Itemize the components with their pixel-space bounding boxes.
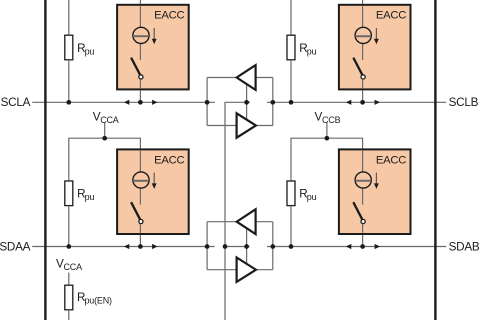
junction SCLA/EACC U1 [138,100,143,105]
node SCLB [449,96,479,109]
wire VCCB stub [326,123,328,139]
svg-text:SDAA: SDAA [0,240,31,253]
node VCCA (SCL side supply) [93,111,119,126]
wire EACC U4 output to SDAB [362,235,364,247]
wire Rpu to SCLB [290,60,292,103]
junction SDAA/buffer input [205,244,210,249]
label Rpu (SDAB) [299,188,316,203]
EACC block U1 (SCL A-side accelerator) [117,5,189,90]
wire Rpu top-right supply stub [290,0,292,35]
wire package boundary B-side [434,0,436,320]
wire enable net (to EN circuit) [225,102,250,320]
wire EACC U2 output to SCLB [362,90,364,102]
junction VCCA rail [102,136,107,141]
junction SCLA/Rpu [66,100,71,105]
svg-text:EACC: EACC [376,154,406,166]
wire EACC U1 output to SCLA [139,90,141,102]
op-amp buffer U7 (points left) [237,209,256,234]
wire Rpu top-left supply stub [68,0,70,35]
node VCCB (SDA side supply) [315,111,341,126]
svg-text:EACC: EACC [154,154,184,166]
wire SCLB rail [267,101,446,103]
junction SCLB/Rpu [289,100,294,105]
resistor Rpu (SDAA pull-up) [65,181,73,206]
op-amp buffer U5 (points left) [237,65,256,90]
arrow pair SDAB (EACC current) [346,244,380,249]
wire enable tap (U7/U8) [246,228,248,264]
junction SCLB/buffer output [270,100,275,105]
junction SDA enable net [223,244,228,249]
wire Rpu to SCLA [68,60,70,103]
wire Rpu(EN) tail [68,310,70,320]
op-amp buffer U6 (points right) [237,113,256,137]
wire SDAB rail [267,246,446,248]
op-amp buffer U8 (points right) [237,258,256,282]
node VCCA (enable pull-up supply) [56,258,82,273]
EACC block U2 (SCL B-side accelerator) [339,5,411,90]
wire VCCA stub [104,123,106,139]
svg-text:pu: pu [307,192,317,202]
svg-text:pu: pu [307,47,317,57]
wire buffer loop right (U8) [256,222,273,270]
node SDAA [0,240,31,253]
svg-text:SCLA: SCLA [1,96,31,109]
wire EACC U2 supply stub [362,0,364,4]
junction SCLA/buffer input [205,100,210,105]
svg-text:pu: pu [85,192,95,202]
svg-text:pu(EN): pu(EN) [85,296,113,306]
junction SDAB/Rpu [289,244,294,249]
wire package boundary A-side [44,0,46,320]
label Rpu (SCLB) [299,42,316,57]
wire buffer loop left (U7) [207,222,237,270]
resistor Rpu (SCLA pull-up) [65,35,73,60]
label Rpu (SDAA) [77,188,94,203]
junction VCCB rail [325,136,330,141]
junction SCL enable [244,100,249,105]
arrow pair SCLA (EACC current) [124,100,158,105]
junction SDAA/EACC U3 [138,244,143,249]
svg-text:SDAB: SDAB [449,240,480,253]
svg-text:SCLB: SCLB [449,96,479,109]
junction SCLB/EACC U2 [360,100,365,105]
arrow pair SDAA (EACC current) [124,244,158,249]
wire SCLA rail [32,101,215,103]
wire enable link on SDA row [224,246,250,248]
EACC block U3 (SDA A-side accelerator) [117,149,189,234]
svg-text:EACC: EACC [376,10,406,22]
resistor Rpu (SDAB pull-up) [287,181,295,206]
wire VCCA to Rpu(EN) [68,273,70,286]
svg-text:CCA: CCA [64,262,83,272]
wire SDAA rail [32,246,214,248]
resistor Rpu(EN) [65,285,73,310]
junction SDAA/Rpu [66,244,71,249]
svg-text:CCA: CCA [100,115,119,125]
node SCLA [1,96,31,109]
svg-text:CCB: CCB [322,115,341,125]
junction SDAB/buffer output [270,244,275,249]
label Rpu(EN) [77,291,112,306]
wire EACC U1 supply stub [139,0,141,4]
EACC block U4 (SDA B-side accelerator) [339,149,411,234]
wire Rpu to SDAA [68,206,70,247]
node SDAB [449,240,480,253]
svg-text:pu: pu [85,47,95,57]
wire VCCB rail to Rpu and EACC U4 [291,138,363,181]
wire enable tap (U5/U6) [246,84,248,120]
wire EACC U3 output to SDAA [139,235,141,247]
label Rpu (SCLA) [77,42,94,57]
junction SDA enable tap [244,244,249,249]
wire Rpu to SDAB [290,206,292,247]
arrow pair SCLB (EACC current) [346,100,380,105]
svg-text:EACC: EACC [154,10,184,22]
wire buffer loop left (U5) [207,78,237,126]
junction SDAB/EACC U4 [360,244,365,249]
wire buffer loop right (U6) [256,78,273,126]
resistor Rpu (SCLB pull-up) [287,35,295,60]
wire VCCA rail to Rpu and EACC U3 [69,138,141,181]
